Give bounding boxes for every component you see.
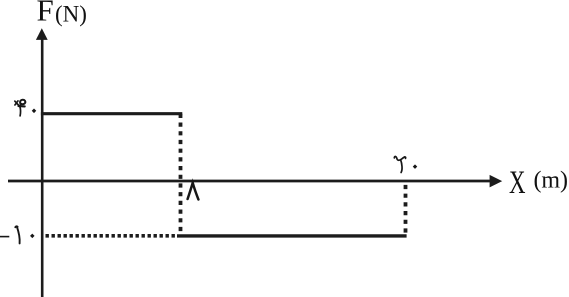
tick label 40 (Persian) digit 4 (15, 100, 26, 116)
tick label -10 (Persian) minus sign (0, 236, 9, 238)
dotted horizontal at F=-10 (46, 234, 178, 238)
x-axis X (8, 175, 502, 188)
svg-text:(N): (N) (55, 1, 87, 26)
svg-text:(m): (m) (534, 168, 569, 194)
segment F=40 from x=0 to x=8 (41, 112, 182, 115)
dotted vertical at x=8 (179, 114, 183, 238)
tick label -10 (Persian) digit 1 (15, 226, 19, 243)
axis label X(m) (509, 165, 568, 201)
dotted vertical at x=20 (404, 185, 408, 236)
tick label -10 (Persian) digit 0 (dot) (30, 234, 35, 239)
segment F=-10 from x=8 to x=20 (177, 234, 407, 237)
y-axis F (36, 28, 48, 297)
svg-text:X: X (509, 165, 526, 201)
tick label 40 (Persian) digit 0 (dot) (32, 109, 37, 114)
svg-text:F: F (37, 0, 54, 28)
tick label 20 (Persian) digit 2 (394, 156, 405, 172)
tick label 20 (Persian) digit 0 (dot) (413, 164, 418, 169)
tick label 8 (Persian) below axis at x=8 (188, 183, 199, 200)
axis label F(N) (37, 0, 87, 28)
